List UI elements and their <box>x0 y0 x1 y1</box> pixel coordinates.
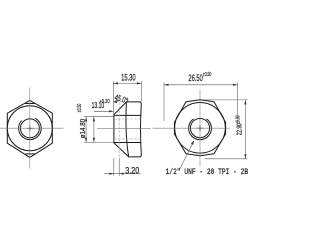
thread arc (gap at top) <box>189 119 212 140</box>
hexagon outline <box>7 100 52 157</box>
3.20 dim <box>105 173 141 175</box>
svg-text:ø14.80: ø14.80 <box>80 119 87 139</box>
hidden bore lines <box>114 103 141 157</box>
chamfer circle <box>7 106 52 151</box>
outline <box>114 102 141 157</box>
extension lines dia14.80 <box>84 116 114 118</box>
15.30 dim <box>113 82 141 84</box>
22.90 dim <box>244 100 246 159</box>
washer face edge top <box>114 114 141 116</box>
26.50 dim <box>164 84 238 86</box>
chamfer circle <box>175 103 226 154</box>
arrows 15.30 <box>113 82 118 84</box>
svg-text:15.30: 15.30 <box>121 72 136 83</box>
center tick left view <box>27 125 33 131</box>
centerlines left view <box>0 88 64 169</box>
arrows dia14.80 <box>85 117 87 122</box>
centerlines right view <box>153 90 230 167</box>
leader 1/2 UNF <box>180 141 194 169</box>
svg-text:±0.50: ±0.50 <box>77 104 83 113</box>
arrows 3.20 (outside) <box>109 173 114 175</box>
arrow 45deg <box>114 101 118 104</box>
svg-text:3.20: 3.20 <box>125 165 139 175</box>
arrows 26.50 <box>164 84 169 86</box>
hexagon outline (corners truncated) <box>174 100 225 156</box>
centerline middle view <box>97 127 151 129</box>
washer face edge bottom <box>114 142 141 144</box>
svg-text:22.90: 22.90 <box>236 123 243 135</box>
svg-text:±0.30: ±0.30 <box>236 115 242 123</box>
chamfer line overshoot <box>126 100 128 102</box>
svg-text:±0.50: ±0.50 <box>203 72 211 78</box>
bottom vertex chord <box>25 153 34 155</box>
arrow leader <box>191 141 194 146</box>
arrows 13.10 vertical <box>93 117 95 122</box>
45 deg leader <box>114 100 119 102</box>
thread arc (gap at top-left) <box>19 118 42 139</box>
face boundary line <box>126 102 129 157</box>
svg-text:26.50: 26.50 <box>188 73 202 84</box>
dims right view <box>164 82 247 168</box>
13.10 dim line (inner vertical) <box>93 117 95 142</box>
arrows 22.90 <box>244 100 246 105</box>
hole circle <box>190 119 209 138</box>
dia 14.80 dim line <box>85 117 87 142</box>
center tick right view <box>197 125 203 131</box>
svg-text:1/2" UNF - 20 TPI - 2B: 1/2" UNF - 20 TPI - 2B <box>166 167 249 177</box>
svg-text:+0.20: +0.20 <box>99 99 109 105</box>
13.10 leader line <box>94 110 114 112</box>
top vertex chord <box>25 103 34 105</box>
arrow 13.10 leader <box>109 110 114 112</box>
hole circle <box>20 119 39 138</box>
